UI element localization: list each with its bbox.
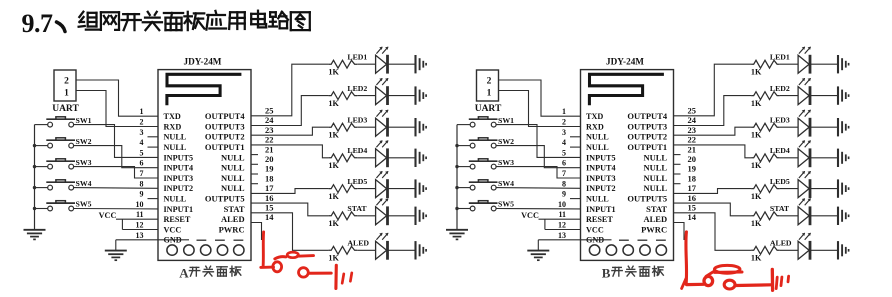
- svg-text:VCC: VCC: [164, 225, 182, 234]
- svg-text:OUTPUT1: OUTPUT1: [205, 142, 245, 152]
- svg-text:INPUT4: INPUT4: [164, 164, 194, 173]
- svg-text:1K: 1K: [328, 99, 339, 108]
- svg-text:7: 7: [140, 169, 144, 178]
- svg-text:LED4: LED4: [347, 146, 367, 155]
- svg-text:LED3: LED3: [347, 116, 367, 125]
- svg-text:ALED: ALED: [221, 214, 245, 224]
- svg-text:OUTPUT5: OUTPUT5: [205, 194, 245, 204]
- svg-text:24: 24: [265, 115, 274, 125]
- svg-text:1K: 1K: [328, 254, 339, 263]
- svg-text:NULL: NULL: [221, 173, 245, 183]
- svg-text:STAT: STAT: [224, 204, 245, 214]
- svg-text:1K: 1K: [328, 161, 339, 170]
- svg-text:SW4: SW4: [76, 179, 92, 188]
- svg-text:23: 23: [265, 125, 274, 135]
- svg-text:LED5: LED5: [347, 177, 367, 186]
- svg-text:12: 12: [136, 221, 144, 230]
- svg-text:2: 2: [64, 77, 69, 87]
- svg-text:NULL: NULL: [164, 133, 187, 142]
- svg-text:OUTPUT3: OUTPUT3: [205, 121, 245, 131]
- svg-text:1K: 1K: [328, 131, 339, 140]
- svg-text:1: 1: [140, 107, 144, 116]
- svg-text:9.7: 9.7: [22, 9, 54, 38]
- svg-text:3: 3: [140, 128, 144, 137]
- svg-text:NULL: NULL: [221, 163, 245, 173]
- svg-text:10: 10: [136, 200, 144, 209]
- svg-text:19: 19: [265, 164, 274, 174]
- svg-text:SW3: SW3: [76, 158, 92, 167]
- svg-text:INPUT5: INPUT5: [164, 153, 194, 162]
- svg-text:1K: 1K: [328, 192, 339, 201]
- svg-text:UART: UART: [52, 104, 79, 114]
- svg-text:RXD: RXD: [164, 122, 182, 131]
- svg-text:NULL: NULL: [164, 195, 187, 204]
- svg-text:21: 21: [265, 144, 274, 154]
- svg-text:4: 4: [140, 138, 144, 147]
- svg-text:20: 20: [265, 154, 274, 164]
- svg-text:9: 9: [140, 190, 144, 199]
- svg-text:6: 6: [140, 159, 144, 168]
- svg-text:A: A: [179, 265, 189, 280]
- svg-text:2: 2: [140, 118, 144, 127]
- svg-text:13: 13: [136, 231, 144, 240]
- svg-text:NULL: NULL: [221, 152, 245, 162]
- svg-text:NULL: NULL: [221, 183, 245, 193]
- svg-text:14: 14: [265, 212, 274, 222]
- svg-text:LED1: LED1: [347, 53, 367, 62]
- svg-text:INPUT3: INPUT3: [164, 174, 194, 183]
- svg-text:INPUT2: INPUT2: [164, 184, 194, 193]
- svg-text:PWRC: PWRC: [219, 224, 245, 234]
- svg-text:NULL: NULL: [164, 143, 187, 152]
- svg-text:22: 22: [265, 135, 274, 145]
- svg-text:1K: 1K: [328, 219, 339, 228]
- svg-text:INPUT1: INPUT1: [164, 205, 194, 214]
- svg-text:17: 17: [265, 183, 274, 193]
- svg-text:1: 1: [64, 89, 69, 99]
- svg-text:25: 25: [265, 106, 274, 116]
- svg-text:VCC: VCC: [99, 211, 117, 220]
- svg-text:ALED: ALED: [347, 239, 369, 248]
- svg-text:5: 5: [140, 148, 144, 157]
- svg-text:SW2: SW2: [76, 137, 92, 146]
- svg-text:1K: 1K: [328, 68, 339, 77]
- svg-text:15: 15: [265, 203, 274, 213]
- svg-text:SW1: SW1: [76, 116, 92, 125]
- svg-text:8: 8: [140, 179, 144, 188]
- svg-text:OUTPUT2: OUTPUT2: [205, 132, 245, 142]
- svg-text:B: B: [602, 265, 611, 280]
- svg-text:OUTPUT4: OUTPUT4: [205, 111, 245, 121]
- svg-text:11: 11: [136, 210, 144, 219]
- svg-text:TXD: TXD: [164, 112, 181, 121]
- svg-text:STAT: STAT: [347, 204, 367, 213]
- svg-text:16: 16: [265, 193, 274, 203]
- svg-text:LED2: LED2: [347, 84, 367, 93]
- svg-text:SW5: SW5: [76, 200, 92, 209]
- svg-text:RESET: RESET: [164, 215, 191, 224]
- svg-text:JDY-24M: JDY-24M: [184, 57, 222, 67]
- svg-text:18: 18: [265, 173, 274, 183]
